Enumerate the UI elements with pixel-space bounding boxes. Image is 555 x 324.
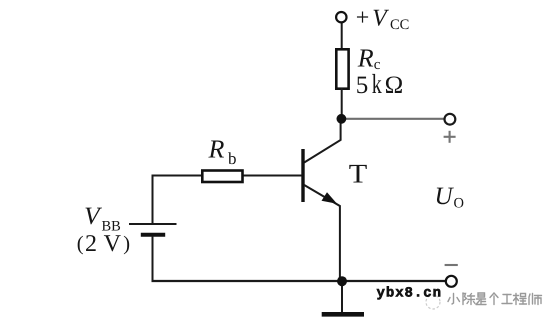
svg-text:V: V [104, 231, 122, 257]
svg-text:R: R [208, 135, 225, 164]
svg-text:V: V [84, 203, 102, 230]
svg-text:ybx8.cn: ybx8.cn [377, 286, 442, 302]
svg-text:): ) [123, 233, 130, 255]
svg-text:U: U [435, 183, 455, 210]
svg-text:b: b [228, 149, 237, 168]
svg-text:k: k [372, 68, 382, 99]
svg-text:O: O [454, 196, 464, 212]
svg-text:Ω: Ω [385, 72, 404, 99]
svg-text:+: + [356, 5, 370, 31]
svg-text:2: 2 [85, 231, 97, 257]
svg-text:5: 5 [356, 72, 369, 99]
svg-text:T: T [349, 158, 368, 188]
svg-text:(: ( [77, 233, 84, 255]
svg-text:V: V [372, 6, 389, 32]
svg-text:CC: CC [390, 17, 409, 33]
